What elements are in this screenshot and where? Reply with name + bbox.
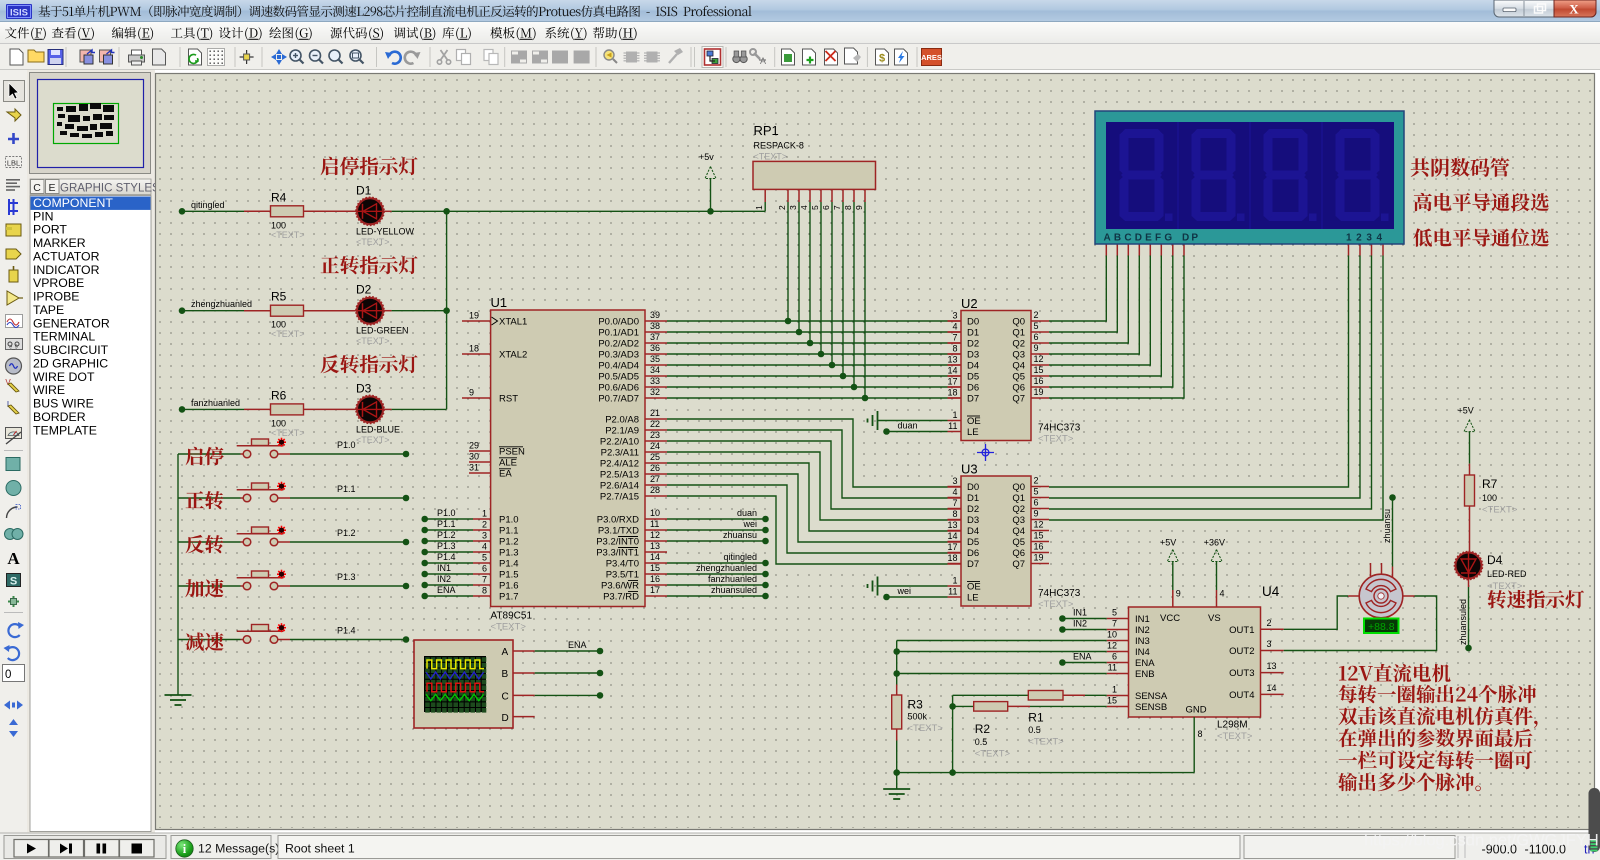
svg-text:D5: D5 [967,372,979,383]
svg-text:12: 12 [1034,520,1044,530]
svg-text:2: 2 [1034,476,1039,486]
svg-text:ENA: ENA [1073,652,1092,662]
svg-text:D4: D4 [967,526,979,537]
svg-text:INDICATOR: INDICATOR [33,263,100,277]
svg-text:P1.3: P1.3 [437,541,456,551]
svg-text:P1.2: P1.2 [437,530,456,540]
svg-text:3: 3 [482,531,487,541]
svg-text:A: A [502,647,509,658]
svg-text:2: 2 [1034,310,1039,320]
svg-text:5: 5 [1034,321,1039,331]
svg-text:14: 14 [947,531,957,541]
svg-text:<TEXT>: <TEXT> [1028,737,1064,748]
svg-text:PSEN: PSEN [499,447,525,458]
svg-text:TERMINAL: TERMINAL [33,330,95,344]
svg-text:IN4: IN4 [1135,647,1150,658]
svg-text:ISIS: ISIS [10,8,28,19]
svg-text:zhengzhuanled: zhengzhuanled [696,563,757,573]
svg-text:9: 9 [1176,589,1181,599]
svg-text:zhengzhuanled: zhengzhuanled [191,299,252,309]
svg-text:5: 5 [1112,608,1117,618]
svg-text:P3.1/TXD: P3.1/TXD [598,526,639,537]
svg-text:IN3: IN3 [1135,636,1150,647]
svg-text:500k: 500k [908,712,928,722]
svg-text:OE: OE [967,582,981,593]
svg-text:P3.2/INT0: P3.2/INT0 [596,537,639,548]
svg-text:Root sheet 1: Root sheet 1 [285,842,355,856]
svg-text:6: 6 [1112,652,1117,662]
svg-text:2: 2 [482,520,487,530]
svg-text:P3.3/INT1: P3.3/INT1 [596,548,639,559]
svg-text:34: 34 [650,365,660,375]
svg-text:ABCDEFG: ABCDEFG [1104,233,1176,244]
svg-text:SENSA: SENSA [1135,691,1168,702]
svg-text:COMPONENT: COMPONENT [33,196,113,210]
svg-text:B: B [502,669,509,680]
svg-text:OUT4: OUT4 [1229,690,1254,701]
svg-text:16: 16 [1034,376,1044,386]
svg-text:12: 12 [650,530,660,540]
svg-text:19: 19 [1034,553,1044,563]
svg-text:P1.1: P1.1 [437,519,456,529]
svg-text:P3.7/RD: P3.7/RD [603,592,639,603]
svg-text:2: 2 [1267,618,1272,628]
svg-text:ENA: ENA [437,585,456,595]
svg-text:12: 12 [1034,354,1044,364]
svg-text:P2.3/A11: P2.3/A11 [601,448,639,459]
svg-text:Q0: Q0 [1012,317,1025,328]
svg-text:<TEXT>: <TEXT> [908,723,944,734]
svg-text:8: 8 [1198,729,1203,739]
svg-text:31: 31 [469,463,479,473]
svg-text:0: 0 [5,669,11,681]
svg-text:D2: D2 [967,339,979,350]
svg-text:P3.0/RXD: P3.0/RXD [597,515,639,526]
svg-text:WIRE DOT: WIRE DOT [33,370,95,384]
svg-text:IN2: IN2 [1073,619,1087,629]
svg-text:R3: R3 [908,698,924,712]
svg-text:P1.6: P1.6 [499,581,519,592]
svg-text:18: 18 [947,553,957,563]
svg-text:Q2: Q2 [1012,339,1025,350]
svg-text:AT89C51: AT89C51 [491,611,533,622]
svg-text:D4: D4 [1487,553,1503,567]
svg-text:D0: D0 [967,317,979,328]
svg-text:R5: R5 [271,290,287,304]
svg-text:32: 32 [650,387,660,397]
svg-text:6: 6 [1034,498,1039,508]
svg-text:IN2: IN2 [1135,625,1150,636]
svg-text:P3.4/T0: P3.4/T0 [606,559,639,570]
svg-text:X: X [1569,2,1579,17]
svg-text:17: 17 [650,585,660,595]
svg-text:wei: wei [742,519,757,529]
svg-text:D0: D0 [967,482,979,493]
svg-text:RESPACK-8: RESPACK-8 [754,141,804,151]
svg-text:15: 15 [1107,696,1117,706]
svg-text:11: 11 [650,519,659,529]
svg-text:Q5: Q5 [1012,537,1025,548]
svg-text:11: 11 [948,587,957,597]
svg-text:P0.5/AD5: P0.5/AD5 [598,372,639,383]
svg-text:2: 2 [777,205,787,210]
svg-text:P1.4: P1.4 [499,559,519,570]
svg-text:P1.3: P1.3 [337,572,356,582]
svg-text:D1: D1 [356,183,372,197]
svg-text:IN2: IN2 [437,574,451,584]
svg-text:P0.6/AD6: P0.6/AD6 [598,383,639,394]
svg-text:26: 26 [650,463,660,473]
svg-text:P1.4: P1.4 [337,626,356,636]
svg-text:16: 16 [1034,542,1044,552]
svg-text:P0.4/AD4: P0.4/AD4 [598,361,639,372]
svg-text:R2: R2 [975,722,991,736]
svg-text:19: 19 [469,311,479,321]
svg-text:U3: U3 [961,462,978,477]
svg-text:3: 3 [952,476,957,486]
svg-text:MARKER: MARKER [33,236,86,250]
svg-text:D1: D1 [967,493,979,504]
svg-text:D3: D3 [967,350,979,361]
svg-text:Q6: Q6 [1012,548,1025,559]
svg-text:P3.6/WR: P3.6/WR [601,581,639,592]
svg-text:0.5: 0.5 [1028,725,1041,735]
svg-text:5: 5 [810,205,820,210]
svg-text:6: 6 [482,564,487,574]
svg-text:OUT1: OUT1 [1229,625,1254,636]
svg-text:P0.3/AD3: P0.3/AD3 [598,350,639,361]
svg-text:12 Message(s): 12 Message(s) [198,842,279,856]
svg-text:27: 27 [650,474,660,484]
svg-text:1: 1 [952,576,957,586]
svg-text:BUS WIRE: BUS WIRE [33,397,94,411]
svg-text:VPROBE: VPROBE [33,276,84,290]
svg-text:DP: DP [1182,233,1200,244]
svg-text:<TEXT>: <TEXT> [356,435,390,445]
svg-text:PORT: PORT [33,223,67,237]
svg-text:16: 16 [650,574,660,584]
svg-text:14: 14 [650,552,660,562]
svg-text:P2.2/A10: P2.2/A10 [600,437,639,448]
svg-text:D6: D6 [967,383,979,394]
svg-text:1234: 1234 [1346,233,1387,244]
svg-text:7: 7 [952,498,957,508]
svg-text:Q0: Q0 [1012,482,1025,493]
svg-text:8: 8 [952,344,957,354]
svg-text:D2: D2 [356,283,372,297]
svg-text:4: 4 [799,205,809,210]
svg-text:Q7: Q7 [1012,394,1025,405]
svg-text:U2: U2 [961,296,978,311]
svg-text:TAPE: TAPE [33,303,64,317]
svg-text:<TEXT>: <TEXT> [1482,505,1518,516]
svg-text:22: 22 [650,419,660,429]
svg-text:1: 1 [482,509,487,519]
svg-text:duan: duan [898,421,918,431]
svg-text:C: C [33,182,41,194]
svg-text:17: 17 [947,542,957,552]
svg-text:P0.2/AD2: P0.2/AD2 [598,339,639,350]
svg-text:4: 4 [952,487,957,497]
svg-text:RP1: RP1 [754,123,779,138]
svg-text:Q4: Q4 [1012,361,1025,372]
svg-text:ALE: ALE [499,458,517,469]
svg-text:30: 30 [469,452,479,462]
svg-text:24: 24 [650,441,660,451]
svg-text:IN1: IN1 [1073,608,1087,618]
svg-text:Q6: Q6 [1012,383,1025,394]
svg-text:P2.5/A13: P2.5/A13 [600,470,639,481]
svg-text:WIRE: WIRE [33,383,65,397]
svg-text:15: 15 [650,563,660,573]
svg-text:<TEXT>: <TEXT> [356,237,390,247]
svg-text:10: 10 [1107,630,1117,640]
svg-text:35: 35 [650,354,660,364]
svg-text:Q1: Q1 [1012,328,1025,339]
svg-text:IN1: IN1 [1135,614,1150,625]
svg-text:100: 100 [271,418,286,428]
svg-text:E: E [48,182,55,194]
svg-text:<TEXT>: <TEXT> [271,329,305,339]
svg-text:1: 1 [1112,685,1117,695]
svg-text:P2.6/A14: P2.6/A14 [600,481,639,492]
svg-text:8: 8 [843,205,853,210]
svg-text:1: 1 [754,205,764,210]
svg-text:39: 39 [650,310,660,320]
svg-text:P1.0: P1.0 [437,508,456,518]
svg-text:3: 3 [788,205,798,210]
svg-text:zhuansu: zhuansu [1382,509,1392,543]
svg-text:Q2: Q2 [1012,504,1025,515]
svg-text:9: 9 [469,388,474,398]
svg-text:zhuansu: zhuansu [723,530,757,540]
svg-text:13: 13 [947,355,957,365]
svg-text:OUT2: OUT2 [1229,646,1254,657]
svg-text:P2.4/A12: P2.4/A12 [600,459,639,470]
svg-text:Q4: Q4 [1012,526,1025,537]
svg-text:VCC: VCC [1160,613,1180,624]
svg-text:P1.7: P1.7 [499,592,519,603]
svg-text:R6: R6 [271,388,287,402]
svg-text:IN1: IN1 [437,563,451,573]
svg-text:36: 36 [650,343,660,353]
svg-text:OE: OE [967,416,981,427]
svg-text:10: 10 [650,508,660,518]
svg-text:D7: D7 [967,394,979,405]
svg-text:D4: D4 [967,361,979,372]
svg-text:PIN: PIN [33,209,54,223]
svg-text:8: 8 [482,586,487,596]
svg-text:7: 7 [1112,619,1117,629]
svg-text:P1.2: P1.2 [499,537,519,548]
svg-text:U1: U1 [491,295,508,310]
svg-text:<TEXT>: <TEXT> [754,152,788,162]
svg-text:11: 11 [948,421,957,431]
svg-text:RST: RST [499,394,518,405]
svg-text:100: 100 [1482,493,1497,503]
svg-text:D6: D6 [967,548,979,559]
svg-text:https;//blog.csdn.net/GWGJFYH: https;//blog.csdn.net/GWGJFYH [1364,832,1599,850]
svg-text:$: $ [879,53,885,65]
svg-text:ENA: ENA [1135,658,1155,669]
svg-text:P1.5: P1.5 [499,570,519,581]
svg-text:38: 38 [650,321,660,331]
svg-text:U4: U4 [1262,584,1280,599]
svg-text:qitingled: qitingled [191,200,225,210]
svg-text:GND: GND [1186,705,1207,716]
svg-text:P2.1/A9: P2.1/A9 [605,426,639,437]
svg-text:+36V: +36V [1204,538,1225,548]
svg-text:P1.2: P1.2 [337,528,356,538]
svg-text:SUBCIRCUIT: SUBCIRCUIT [33,343,109,357]
svg-text:14: 14 [1267,683,1277,693]
svg-text:3: 3 [952,311,957,321]
svg-text:R4: R4 [271,190,287,204]
svg-text:D3: D3 [967,515,979,526]
svg-text:XTAL1: XTAL1 [499,317,527,328]
svg-text:4: 4 [952,322,957,332]
svg-text:Q3: Q3 [1012,515,1025,526]
svg-text:7: 7 [482,575,487,585]
svg-text:18: 18 [469,344,479,354]
svg-text:S: S [10,576,17,588]
svg-text:Q3: Q3 [1012,350,1025,361]
svg-text:<TEXT>: <TEXT> [356,336,390,346]
svg-text:<TEXT>: <TEXT> [271,428,305,438]
svg-text:P1.1: P1.1 [499,526,519,537]
svg-text:P1.3: P1.3 [499,548,519,559]
svg-text:P3.5/T1: P3.5/T1 [606,570,639,581]
svg-text:15: 15 [1034,531,1044,541]
svg-text:Q1: Q1 [1012,493,1025,504]
svg-text:D5: D5 [967,537,979,548]
svg-text:8: 8 [952,509,957,519]
svg-text:2D GRAPHIC: 2D GRAPHIC [33,356,108,370]
svg-text:+88.8: +88.8 [1368,621,1395,633]
svg-text:+5V: +5V [1458,406,1474,416]
svg-text:4: 4 [1220,589,1225,599]
svg-text:ACTUATOR: ACTUATOR [33,250,100,264]
svg-text:R1: R1 [1028,711,1044,725]
svg-text:<TEXT>: <TEXT> [1038,434,1074,445]
svg-text:74HC373: 74HC373 [1038,423,1081,434]
svg-text:SENSB: SENSB [1135,702,1167,713]
svg-text:P1.4: P1.4 [437,552,456,562]
svg-text:zhuansuled: zhuansuled [711,585,757,595]
svg-text:D: D [502,713,509,724]
svg-text:duan: duan [737,508,757,518]
svg-text:5: 5 [482,553,487,563]
svg-text:1: 1 [952,410,957,420]
svg-text:wei: wei [897,586,912,596]
svg-text:6: 6 [1034,332,1039,342]
svg-text:P0.1/AD1: P0.1/AD1 [598,328,639,339]
svg-text:<TEXT>: <TEXT> [271,230,305,240]
svg-text:i: i [183,842,187,856]
svg-text:ENA: ENA [568,640,587,650]
svg-text:C: C [502,692,509,703]
svg-text:13: 13 [1267,661,1277,671]
svg-text:ENB: ENB [1135,669,1155,680]
svg-text:LED-YELLOW: LED-YELLOW [356,226,415,236]
svg-text:GRAPHIC STYLES: GRAPHIC STYLES [60,183,160,195]
svg-text:<TEXT>: <TEXT> [1487,581,1523,592]
svg-text:9: 9 [854,205,864,210]
svg-text:33: 33 [650,376,660,386]
svg-text:37: 37 [650,332,660,342]
svg-text:fanzhuanled: fanzhuanled [708,574,757,584]
svg-text:LE: LE [967,427,979,438]
svg-text:A: A [760,56,766,66]
svg-text:P0.0/AD0: P0.0/AD0 [598,317,639,328]
svg-text:OUT3: OUT3 [1229,668,1254,679]
svg-text:qitingled: qitingled [723,552,757,562]
svg-text:D1: D1 [967,328,979,339]
svg-text:5: 5 [1034,487,1039,497]
svg-text:19: 19 [1034,387,1044,397]
svg-text:VS: VS [1208,613,1221,624]
svg-text:zhuansuled: zhuansuled [1458,599,1468,645]
svg-text:+5V: +5V [1160,538,1176,548]
svg-text:7: 7 [952,333,957,343]
svg-text:29: 29 [469,441,479,451]
svg-text:0.5: 0.5 [975,737,988,747]
svg-text:14: 14 [947,366,957,376]
svg-text:100: 100 [271,220,286,230]
svg-text:13: 13 [650,541,660,551]
svg-text:IPROBE: IPROBE [33,290,79,304]
svg-text:9: 9 [1034,343,1039,353]
svg-text:BORDER: BORDER [33,410,86,424]
svg-text:100: 100 [271,320,286,330]
svg-text:17: 17 [947,377,957,387]
svg-text:3: 3 [1267,639,1272,649]
svg-text:LED-BLUE: LED-BLUE [356,424,400,434]
svg-text:4: 4 [482,542,487,552]
svg-text:12: 12 [1107,641,1117,651]
svg-text:LED-RED: LED-RED [1487,569,1527,579]
svg-text:7: 7 [832,205,842,210]
svg-text:LE: LE [967,593,979,604]
svg-text:P1.0: P1.0 [499,515,519,526]
svg-text:13: 13 [947,520,957,530]
svg-text:21: 21 [650,408,660,418]
svg-text:74HC373: 74HC373 [1038,588,1081,599]
svg-text:+5v: +5v [699,152,714,162]
svg-text:P2.0/A8: P2.0/A8 [605,415,639,426]
svg-text:11: 11 [1108,663,1117,673]
svg-text:e_9: e_9 [9,345,18,351]
svg-text:I: I [7,400,9,409]
svg-text:TEMPLATE: TEMPLATE [33,423,97,437]
svg-text:fanzhuanled: fanzhuanled [191,398,240,408]
svg-text:LED-GREEN: LED-GREEN [356,326,409,336]
svg-text:LBL: LBL [7,159,20,168]
svg-text:GENERATOR: GENERATOR [33,316,110,330]
svg-text:P0.7/AD7: P0.7/AD7 [598,394,639,405]
svg-text:15: 15 [1034,365,1044,375]
svg-text:D3: D3 [356,381,372,395]
svg-text:28: 28 [650,485,660,495]
svg-text:<TEXT>: <TEXT> [975,749,1011,760]
svg-text:P2.7/A15: P2.7/A15 [600,492,639,503]
svg-text:D7: D7 [967,559,979,570]
svg-text:<TEXT>: <TEXT> [491,622,527,633]
svg-text:P1.0: P1.0 [337,440,356,450]
svg-text:XTAL2: XTAL2 [499,350,527,361]
svg-text:18: 18 [947,388,957,398]
svg-text:9: 9 [1034,509,1039,519]
